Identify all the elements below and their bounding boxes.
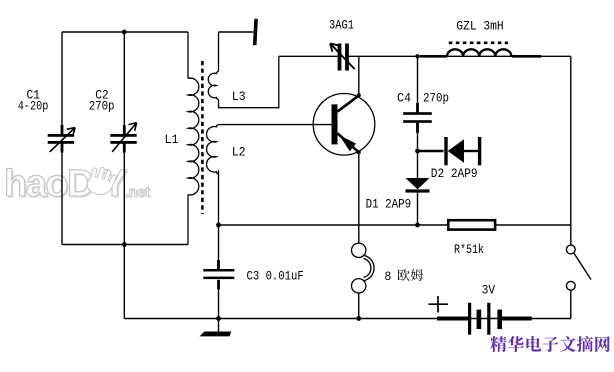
watermark haoDIY.net (4, 163, 150, 207)
wire left drop to bottom rail (123, 245, 125, 319)
wire bottom rail (124, 318, 571, 320)
wire collector drop (358, 56, 360, 95)
transistor circle (313, 94, 375, 156)
ground (218, 319, 220, 332)
svg-text:D1 2AP9: D1 2AP9 (366, 197, 412, 212)
inductor GZL 3mH (420, 49, 541, 56)
antenna bar (253, 19, 258, 46)
transformer core (dashed) (201, 61, 204, 214)
resistor R*51k (448, 220, 495, 229)
antenna lead (219, 31, 254, 33)
svg-text:3V: 3V (482, 283, 496, 298)
node junction top (124,32) (122, 30, 127, 35)
capacitor trimmer 3AG1 (330, 44, 355, 71)
svg-text:D2 2AP9: D2 2AP9 (431, 166, 478, 181)
node rail left corner (216, 223, 221, 228)
wire middle rail (219, 224, 571, 226)
svg-text:.net: .net (125, 184, 150, 201)
inductor L3 (208, 32, 279, 108)
inductor L1 (188, 32, 199, 245)
node junction bottom (124,244.5) (122, 242, 127, 247)
svg-text:270p: 270p (89, 99, 115, 114)
wire emitter drop to earphone (358, 152, 360, 243)
wire top-left rail (62, 31, 188, 33)
wire L3 feedback to trimmer (279, 55, 338, 57)
capacitor C2 (110, 123, 136, 153)
svg-text:haoD: haoD (4, 163, 93, 205)
switch (566, 245, 591, 318)
wire C1 branch vertical (61, 32, 63, 245)
wire top rail to right edge (541, 55, 571, 57)
svg-text:C4: C4 (397, 91, 411, 106)
svg-text:4-20p: 4-20p (18, 99, 49, 114)
svg-text:R*51k: R*51k (454, 242, 484, 257)
wire right edge vertical (570, 56, 572, 245)
earphone 8 ohm (352, 243, 375, 293)
svg-text:C3 0.01uF: C3 0.01uF (247, 269, 304, 284)
svg-text:GZL 3mH: GZL 3mH (456, 19, 503, 34)
transistor base bar (332, 104, 338, 144)
battery 3V (437, 303, 532, 335)
node D1 rail junction (415, 223, 420, 228)
watermark purple text (490, 336, 506, 352)
capacitor C1 (48, 125, 75, 153)
wire trimmer to top rail right (349, 55, 541, 57)
wire base from L2 (219, 124, 332, 126)
GZL core dashed (449, 41, 508, 44)
capacitor C3 (218, 225, 220, 262)
wire C2 branch vertical (123, 32, 125, 245)
node C4/D2 junction (415, 149, 420, 154)
svg-text:L2: L2 (232, 145, 246, 160)
battery + sign (429, 296, 449, 313)
node C4 top junction (415, 54, 419, 58)
diode D2 (418, 137, 482, 165)
wire left box bottom rail (62, 244, 188, 246)
capacitor C4 (417, 56, 419, 113)
node earphone bottom junction (356, 316, 361, 321)
inductor L2 (207, 125, 219, 225)
svg-text:270p: 270p (423, 91, 449, 106)
transistor collector (338, 95, 360, 111)
wire earphone bottom (358, 293, 360, 319)
svg-text:L3: L3 (232, 89, 246, 104)
svg-text:8: 8 (385, 269, 392, 284)
svg-text:L1: L1 (165, 132, 179, 147)
svg-text:3AG1: 3AG1 (329, 18, 354, 33)
node ground junction (216, 316, 221, 321)
transistor emitter with arrow (338, 133, 359, 152)
diode D1 (406, 151, 430, 225)
